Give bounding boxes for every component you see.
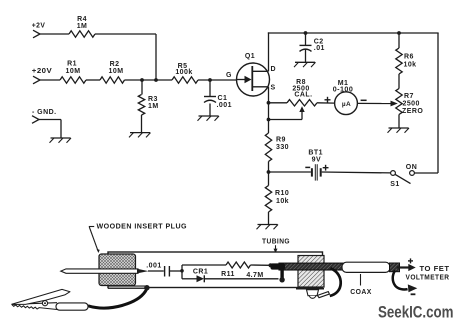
node +2V input terminal: [32, 22, 46, 37]
wire: [209, 80, 211, 97]
ground: [294, 62, 316, 67]
svg-text:CAL.: CAL.: [294, 92, 312, 99]
svg-text:R7: R7: [404, 93, 414, 100]
svg-text:TO FET: TO FET: [420, 266, 450, 273]
node junction battery: [267, 170, 271, 174]
wire: [182, 278, 197, 280]
wire: [141, 80, 143, 95]
wire: [39, 120, 61, 139]
wire: [268, 162, 270, 186]
wire: [357, 102, 391, 104]
node junction R4 drop: [154, 78, 158, 82]
alligator clip: [12, 289, 88, 310]
to-voltmeter arrow: [397, 264, 416, 271]
svg-text:R11: R11: [221, 271, 235, 278]
wire: [40, 33, 69, 35]
wire: [204, 278, 278, 280]
svg-text:0-100: 0-100: [333, 87, 354, 94]
label VOLTMETER: [406, 275, 450, 282]
wire: [322, 171, 391, 174]
node junction R2/R3: [140, 78, 144, 82]
svg-text:.001: .001: [217, 102, 232, 109]
svg-text:100k: 100k: [175, 69, 192, 76]
ground: [50, 138, 72, 143]
meter M1: [333, 80, 358, 115]
svg-text:+2V: +2V: [32, 22, 46, 29]
coax connector: [342, 262, 390, 272]
svg-text:1M: 1M: [148, 103, 159, 110]
svg-text:WOODEN INSERT PLUG: WOODEN INSERT PLUG: [97, 224, 188, 231]
shield clamp: [307, 290, 330, 299]
node probe junction: [180, 265, 184, 279]
probe needle: [61, 269, 149, 274]
wire: [155, 34, 157, 80]
svg-text:R6: R6: [404, 54, 414, 61]
coax shield stub: [279, 268, 284, 282]
potentiometer R8: [287, 79, 317, 106]
wire: [198, 79, 237, 81]
wire: [125, 79, 173, 81]
svg-text:S1: S1: [390, 181, 399, 188]
wire: [268, 212, 270, 225]
resistor R4: [69, 16, 95, 37]
ground lead wire: [88, 285, 150, 308]
resistor R10: [265, 186, 289, 213]
wire: [305, 33, 307, 45]
svg-text:10M: 10M: [66, 68, 81, 75]
svg-text:CR1: CR1: [193, 269, 208, 276]
label TO FET: [420, 266, 450, 273]
svg-text:.01: .01: [314, 45, 325, 52]
node + meter terminal: [325, 97, 331, 103]
ground: [388, 128, 410, 133]
wire: [268, 32, 270, 71]
svg-text:10M: 10M: [109, 68, 124, 75]
tube body: [108, 252, 323, 288]
capacitor .001 probe: [146, 262, 169, 276]
node -GND input terminal: [32, 109, 56, 123]
resistor R1: [60, 61, 86, 84]
label WOODEN INSERT PLUG: [89, 224, 187, 253]
svg-text:+20V: +20V: [32, 68, 53, 75]
svg-text:R2: R2: [110, 61, 120, 68]
svg-text:- GND.: - GND.: [32, 109, 56, 116]
wire: [437, 33, 439, 173]
svg-text:9V: 9V: [312, 156, 321, 163]
wooden insert plug: [99, 254, 136, 286]
resistor R6: [396, 48, 417, 74]
coax insert plug: [296, 256, 324, 289]
wire: [398, 74, 400, 89]
node junction gate/C1: [208, 78, 212, 82]
svg-text:.001: .001: [146, 262, 161, 269]
svg-text:10k: 10k: [404, 62, 417, 69]
node + output: [408, 258, 413, 263]
wire: [414, 172, 438, 174]
wire: [169, 270, 181, 272]
wire: [398, 115, 400, 129]
node junction R8 wiper: [267, 118, 271, 122]
wire: [182, 264, 226, 266]
node G gate label: [226, 72, 232, 79]
wiper of R7: [391, 101, 398, 107]
svg-text:D: D: [271, 66, 277, 73]
coax cable stub: [390, 263, 400, 272]
svg-text:R10: R10: [275, 190, 289, 197]
node coax core junction: [268, 263, 272, 267]
node junction R6: [397, 31, 401, 35]
svg-text:TUBING: TUBING: [262, 238, 290, 245]
switch S1: [390, 164, 417, 188]
wire: [40, 79, 60, 81]
node +20V input terminal: [32, 68, 53, 84]
wire: [269, 171, 311, 173]
svg-text:R9: R9: [276, 137, 286, 144]
diode CR1: [193, 269, 208, 283]
wiper of R8: [269, 106, 305, 119]
wire: [141, 115, 143, 133]
node junction R8 top: [267, 101, 271, 105]
wire: [148, 270, 164, 272]
resistor R9: [265, 133, 289, 162]
node junction C2: [304, 31, 308, 35]
wire: [209, 104, 211, 117]
coax cable: [271, 263, 344, 270]
ground: [257, 225, 279, 230]
wire: [251, 264, 271, 266]
resistor R11: [221, 262, 264, 279]
wire: [86, 79, 100, 81]
shield wire: [330, 268, 341, 296]
watermark SeekIC.com: [378, 304, 454, 322]
svg-text:C1: C1: [218, 95, 228, 102]
svg-text:SeekIC.com: SeekIC.com: [378, 304, 454, 322]
svg-text:R1: R1: [67, 61, 77, 68]
label TUBING: [262, 238, 290, 253]
ground: [129, 133, 151, 138]
svg-text:µA: µA: [342, 101, 351, 108]
svg-text:1M: 1M: [77, 23, 88, 30]
battery BT1: [305, 150, 328, 181]
node - meter terminal: [361, 99, 367, 101]
capacitor C1: [204, 95, 232, 109]
ground: [198, 116, 220, 121]
wire: [317, 102, 335, 104]
node - output: [411, 293, 416, 295]
wire: [269, 102, 288, 104]
transistor Q1: [237, 53, 277, 96]
wire: [268, 32, 439, 34]
wire: [305, 50, 307, 63]
tube bottom shadow: [108, 286, 146, 289]
svg-text:S: S: [271, 85, 276, 92]
label COAX: [350, 274, 372, 296]
svg-text:VOLTMETER: VOLTMETER: [406, 275, 450, 282]
minus output arrow: [393, 270, 418, 292]
wire: [398, 33, 400, 48]
svg-text:ZERO: ZERO: [402, 108, 423, 115]
svg-text:4.7M: 4.7M: [246, 272, 263, 279]
resistor R5: [172, 63, 198, 83]
capacitor C2: [300, 39, 325, 53]
svg-text:COAX: COAX: [350, 289, 372, 296]
wire: [95, 33, 156, 35]
svg-text:330: 330: [276, 144, 289, 151]
wire: [268, 87, 270, 133]
svg-text:Q1: Q1: [245, 53, 255, 60]
svg-text:10k: 10k: [276, 198, 289, 205]
svg-text:G: G: [226, 72, 232, 79]
svg-text:2500: 2500: [403, 101, 420, 108]
potentiometer R7: [396, 89, 424, 115]
resistor R2: [100, 61, 125, 83]
svg-text:ON: ON: [406, 164, 417, 171]
resistor R3: [138, 95, 158, 116]
